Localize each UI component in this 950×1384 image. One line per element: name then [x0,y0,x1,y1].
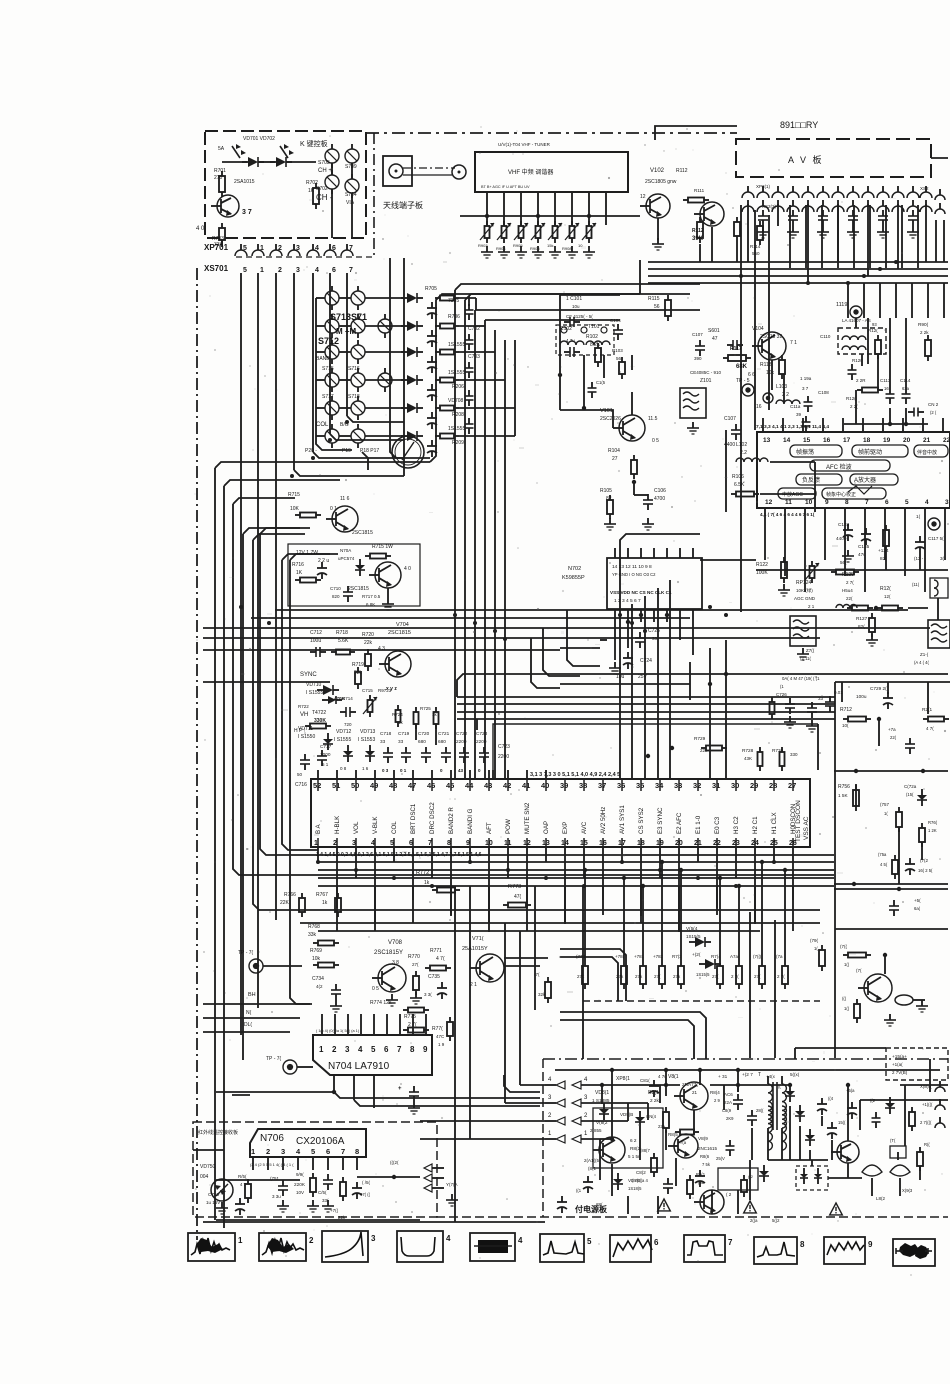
degauss coils [862,1165,882,1176]
connector XS2 pin [920,206,932,212]
wire [504,1075,540,1092]
wire [794,1048,796,1059]
wire [329,273,331,434]
ground [647,518,649,524]
power board bottom border [436,1216,948,1218]
wire [486,192,488,225]
switch S706 [351,291,365,305]
ground [609,518,611,524]
junction [316,860,320,864]
connector XS2 pin [772,206,784,212]
junction [698,1068,702,1072]
connector AV pin [772,192,784,198]
wire [774,920,776,1058]
power board left border [542,1059,544,1217]
wire [648,268,948,270]
svg-text:2 2 u: 2 2 u [318,558,329,564]
svg-text:6 8K: 6 8K [366,602,375,607]
wire [223,486,225,1150]
wire [559,295,561,410]
wire [697,847,699,862]
wire [214,468,216,1220]
wire [931,157,948,159]
svg-text:+(2(: +(2( [692,952,701,957]
junction [724,613,728,617]
capacitor AV [788,215,798,217]
wire [430,294,640,462]
svg-text:H5u4: H5u4 [842,588,853,593]
wire [847,1163,849,1178]
svg-text:10k: 10k [312,956,321,962]
svg-text:( 78((a 4: ( 78((a 4 [632,1178,648,1183]
svg-text:伴音中放: 伴音中放 [917,449,937,456]
switch S709 [345,149,359,163]
wire [700,559,756,561]
ground [221,1202,223,1208]
ground [554,246,556,252]
svg-text:29: 29 [750,781,758,790]
capacitor band chain [465,423,474,425]
wire [476,351,495,353]
svg-text:5((2: 5((2 [772,1218,780,1223]
svg-text:6: 6 [654,1238,659,1247]
svg-text:C717: C717 [320,744,332,749]
wire [488,847,490,932]
svg-text:R117: R117 [730,346,742,352]
svg-text:R722: R722 [298,704,309,709]
wire [373,1014,375,1035]
svg-text:C8(2: C8(2 [636,1170,646,1175]
wire [412,770,414,779]
svg-text:TP - 7(: TP - 7( [238,950,254,956]
svg-text:37: 37 [598,781,606,790]
filter Z702 [790,616,816,646]
wire [355,770,357,779]
svg-text:9: 9 [868,1240,873,1249]
wire [537,192,539,225]
wire [678,847,680,932]
svg-text:4: 4 [925,499,929,506]
wire [828,1177,862,1179]
svg-text:C/5(: C/5( [318,1190,327,1195]
wire [837,205,839,268]
svg-text:100u: 100u [310,638,321,644]
wire [564,847,566,924]
resistor R113 [734,222,740,236]
junction [622,876,626,880]
svg-text:43: 43 [458,768,464,773]
svg-text:R903: R903 [478,243,488,248]
junction [718,876,722,880]
svg-text:BAND2 R: BAND2 R [448,807,455,834]
wire [600,1084,680,1086]
resistor (7((( [759,966,765,984]
wire [847,283,849,318]
svg-text:R102: R102 [586,334,598,340]
IC N704 outline [313,1035,432,1075]
svg-text:560: 560 [752,251,760,256]
wire [735,838,737,847]
connector XS2 pin [877,206,889,212]
wire [740,470,742,612]
wire [196,268,198,1240]
svg-text:1 C101: 1 C101 [566,296,582,302]
svg-text:R8(2: R8(2 [630,1146,641,1151]
diode VD707 [407,347,417,357]
svg-text:L102: L102 [736,442,747,448]
IF transformer T101 [556,325,614,355]
IC N701 outline [311,779,810,847]
junction [468,860,472,864]
connector XS804 [935,1087,945,1092]
capacitor C815 [847,1107,857,1109]
junction [708,605,712,609]
svg-text:3(: 3( [940,556,945,561]
svg-text:C107: C107 [692,332,703,337]
svg-text:S702: S702 [316,186,328,192]
svg-text:U/V(1)-T04 VHF - TUNER: U/V(1)-T04 VHF - TUNER [498,142,551,147]
svg-text:1S1555: 1S1555 [448,370,465,376]
wire [450,838,452,847]
svg-text:L103: L103 [776,384,787,390]
svg-text:R8(6: R8(6 [700,1154,710,1159]
wire [725,430,727,512]
diode VD713 [365,751,375,756]
wire [665,1070,667,1096]
svg-text:1 2K: 1 2K [928,828,937,833]
svg-text:32: 32 [693,781,701,790]
wire [764,508,766,524]
scribble [848,486,872,494]
wire [252,1157,254,1170]
wire [545,770,547,779]
svg-text:56: 56 [654,304,660,310]
wire [792,886,794,931]
svg-text:1 5K: 1 5K [838,793,849,798]
capacitor C703 [427,361,437,363]
svg-text:R724: R724 [392,712,403,717]
svg-text:12: 12 [765,499,773,506]
svg-text:R8(4: R8(4 [710,1090,720,1095]
svg-text:33: 33 [380,739,386,744]
wire [485,319,620,321]
wire [799,1126,801,1160]
junction [854,769,858,773]
svg-text:N70A: N70A [340,548,351,553]
capacitor C723 [479,752,489,754]
svg-text:R209: R209 [452,440,464,446]
resistor R702 [313,188,319,204]
ground [847,550,849,556]
wire [627,1103,629,1121]
svg-text:7305: 7305 [448,298,459,304]
transistor V804 [700,1190,724,1214]
wire [560,683,690,685]
capacitor C753b [889,905,899,907]
test point TP-7b [283,1060,297,1074]
svg-text:R112: R112 [676,168,688,174]
wire [488,770,490,779]
switch S710 [325,429,339,443]
wire [834,770,948,772]
svg-text:47C: 47C [436,1034,445,1039]
regulator box [288,544,420,606]
svg-text:56(: 56( [840,560,847,565]
ground [871,634,873,640]
transistor V802 [674,1134,698,1158]
wire [627,548,629,558]
svg-text:XS701: XS701 [204,264,229,273]
block agc [778,488,816,499]
optocoupler N801 [796,1166,828,1190]
capacitor C721 [441,752,451,754]
junction [646,754,650,758]
junction [878,267,882,271]
LED VD702 [280,146,288,158]
resistor R701 [219,176,225,192]
transformer T801 [768,1084,772,1093]
wire [564,886,566,923]
wire [735,779,737,791]
resistor A7a( [736,966,742,984]
svg-text:27(: 27( [654,974,661,979]
wire [374,770,376,779]
junction [679,868,683,872]
connector XS2 pin [862,206,874,212]
junction [852,882,856,886]
junction [267,621,271,625]
resistor R815 [909,1112,915,1126]
wire [716,838,718,847]
switch S711 [351,429,365,443]
svg-text:T: T [758,1072,761,1078]
resistor R124 [883,530,889,546]
wire [468,296,470,306]
resistor R775 [408,1028,424,1033]
wire [901,205,903,268]
svg-text:0 8: 0 8 [340,766,347,771]
waveform 4 [397,1231,443,1262]
wire [929,1059,931,1092]
svg-text:3: 3 [345,1045,350,1054]
diode VD816 [759,1171,769,1176]
wire [621,838,623,847]
waveform 5 dark [470,1233,515,1261]
svg-text:C107: C107 [724,416,736,422]
resistor R112 [697,222,703,238]
junction [643,629,647,633]
resistor chain [440,434,454,439]
waveform 1 blob [196,1238,223,1253]
wire [260,534,834,855]
capacitor C720 [421,752,431,754]
svg-text:46: 46 [427,781,435,790]
box around DSC [493,724,818,770]
small box PTC [890,1146,906,1158]
wire [884,508,886,524]
wire [374,779,376,791]
wire [507,847,509,878]
wire [355,779,357,791]
wire [602,847,604,900]
diode VD760 [917,795,927,800]
svg-text:0: 0 [440,768,443,773]
wire [317,838,319,847]
switch S716 [351,373,365,387]
wire [740,205,742,470]
svg-text:8: 8 [845,499,849,506]
capacitor C726 [785,703,795,705]
junction [708,682,712,686]
wire [431,779,433,791]
svg-text:Z1-(: Z1-( [920,652,929,657]
resistor R123 [836,570,854,575]
ground [327,1200,329,1206]
wire [631,355,633,370]
wire [415,724,417,740]
connector AV pin [742,192,754,198]
svg-text:0 5: 0 5 [372,986,379,992]
wire [242,534,244,1060]
svg-text:S709: S709 [345,164,357,170]
svg-text:R905: R905 [513,243,523,248]
svg-text:891□□RY: 891□□RY [780,120,818,130]
wire [316,407,325,409]
svg-text:C81(: C81( [640,1078,650,1083]
wire [621,779,623,791]
resistor R703 [219,228,225,240]
wire [221,240,223,247]
svg-text:1: 1 [584,1131,588,1137]
wire [716,886,718,915]
svg-text:11 6: 11 6 [340,496,350,502]
svg-text:1119: 1119 [836,302,847,308]
svg-text:2 7(: 2 7( [846,580,854,585]
svg-text:R717 0.5: R717 0.5 [362,594,381,599]
svg-text:R106: R106 [732,474,744,480]
svg-text:C110: C110 [820,334,831,339]
wire [318,930,760,932]
capacitor C722 [459,752,469,754]
svg-text:2K9: 2K9 [726,1116,734,1121]
svg-text:VD701 VD702: VD701 VD702 [243,136,275,142]
svg-text:2SC1815: 2SC1815 [388,630,411,636]
wire [895,283,897,318]
wire [560,410,613,428]
junction [772,860,776,864]
junction [737,884,741,888]
ground [921,1000,923,1006]
svg-text:中放AGC: 中放AGC [782,491,803,498]
wire [216,1219,420,1221]
wire [582,886,584,1001]
wire [520,1084,545,1086]
wire [905,318,907,388]
wire [922,418,924,432]
wire [316,435,325,437]
svg-text:9: 9 [825,499,829,506]
svg-text:AFC 检波: AFC 检波 [826,463,852,471]
wire [601,1085,603,1104]
tuner U101 [475,152,628,192]
connector XS2 pin [817,206,829,212]
svg-text:C725: C725 [648,628,660,634]
svg-text:R105: R105 [600,488,612,494]
junction [345,420,349,424]
svg-text:AC6: AC6 [724,1092,733,1097]
resistor R105 [607,500,613,514]
wire [390,440,430,458]
svg-text:DL(: DL( [244,1022,252,1028]
wire [294,470,404,476]
wire [657,218,659,240]
capacitor C107 [695,345,705,347]
svg-text:3: 3 [371,1234,376,1243]
ground [282,1200,284,1206]
svg-text:C1(5: C1(5 [596,380,606,385]
filter Z103 [928,620,950,648]
svg-text:XP2(1): XP2(1) [756,184,771,189]
resistor R111 [688,198,704,203]
svg-text:6a(: 6a( [914,906,921,911]
svg-text:4: 4 [548,1077,552,1083]
svg-text:16( 2 5(: 16( 2 5( [918,868,933,873]
wire [689,662,691,700]
wire [927,283,929,318]
wire [771,360,773,390]
svg-text:BAND: BAND [316,356,330,362]
capacitor R209 [427,417,437,419]
capacitor C113 [886,393,895,395]
svg-text:31: 31 [712,781,720,790]
svg-text:R720: R720 [362,632,374,638]
svg-text:4400: 4400 [724,442,735,448]
svg-text:R756: R756 [838,784,850,790]
wire [316,298,352,450]
wire [648,282,948,284]
junction [473,621,477,625]
connector XS2 pin [742,206,754,212]
wire [260,528,310,534]
junction [544,876,548,880]
svg-text:V8(9: V8(9 [698,1136,708,1141]
svg-text:天线端子板: 天线端子板 [383,200,423,210]
wire [761,862,763,961]
svg-text:3: 3 [945,499,949,506]
capacitor C716 [300,759,310,761]
svg-text:A V 板: A V 板 [788,154,824,165]
junction [658,868,662,872]
waveform 8 [684,1235,725,1262]
svg-text:I S1555: I S1555 [334,737,351,743]
svg-text:3,1 3 7,3 3 0 5,1: 3,1 3 7,3 3 0 5,1 5,1 4,0 4,9 2,4 2,4 5 [530,772,620,778]
svg-text:R706: R706 [448,314,460,320]
svg-text:MUTE SN2: MUTE SN2 [524,802,531,834]
resistor R120 [862,388,878,393]
wire [633,482,635,495]
junction [736,1083,740,1087]
svg-text:(7(((: (7((( [753,954,762,959]
transistor V103 [700,202,724,226]
svg-text:25(V: 25(V [716,1156,725,1161]
capacitor C712 [315,647,317,657]
junction [862,274,866,278]
svg-text:18: 18 [863,437,871,444]
capacitor C102 [569,347,571,357]
wire [374,847,376,924]
capacitor C730 [905,743,915,745]
wire [583,779,585,791]
